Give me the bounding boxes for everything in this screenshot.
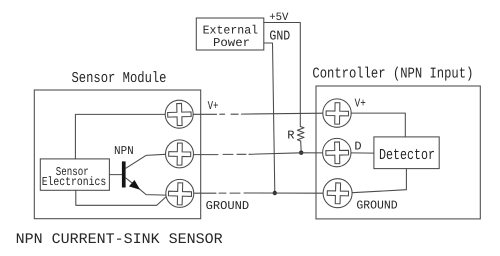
wire controller GROUND to detector bottom: [352, 169, 406, 193]
label External Power: [203, 24, 259, 50]
wire resistor to node: [300, 141, 303, 153]
svg-text:Power: Power: [213, 36, 250, 50]
svg-text:NPN: NPN: [114, 144, 134, 158]
label Sensor Electronics: [42, 165, 107, 189]
external power supply box: [196, 18, 263, 50]
wire V+ line sensor to controller: [193, 113, 323, 114]
svg-text:R: R: [287, 128, 294, 142]
svg-text:V+: V+: [355, 96, 366, 110]
sensor electronics box: [40, 159, 109, 190]
terminal sensor D: [166, 140, 194, 168]
wire controller V+ to detector top: [351, 113, 405, 137]
transistor Q1 NPN base bar: [122, 161, 126, 187]
controller box: [316, 86, 480, 219]
wire controller D to detector left: [351, 152, 374, 154]
transistor Q1 emitter arrow: [130, 181, 139, 189]
wire emitter to ground terminal: [126, 178, 166, 195]
wire D line sensor to controller: [193, 153, 322, 155]
sensor module box: [34, 90, 200, 219]
detector box: [374, 137, 439, 169]
svg-text:Sensor Module: Sensor Module: [72, 70, 167, 87]
svg-text:GROUND: GROUND: [206, 199, 250, 213]
terminal controller V+: [323, 99, 351, 127]
svg-text:Controller (NPN Input): Controller (NPN Input): [312, 65, 473, 82]
terminal controller D: [323, 138, 351, 166]
node junction dot resistor/D wire: [299, 151, 303, 155]
svg-text:V+: V+: [208, 99, 219, 113]
terminal sensor GROUND: [166, 179, 194, 207]
node junction dot GND/GROUND wire: [273, 191, 277, 195]
svg-text:GROUND: GROUND: [356, 199, 397, 213]
resistor R: [297, 127, 304, 141]
wire GND net: [264, 43, 275, 193]
svg-text:Detector: Detector: [379, 146, 435, 164]
wire sensor electronics to ground terminal: [76, 190, 166, 205]
svg-text:NPN CURRENT-SINK SENSOR: NPN CURRENT-SINK SENSOR: [16, 232, 223, 248]
svg-text:D: D: [354, 139, 361, 153]
terminal controller GROUND: [323, 179, 352, 208]
wire sensor V+ internal: [75, 114, 165, 158]
wire collector to D terminal: [126, 154, 166, 168]
wire GROUND line sensor to controller: [194, 192, 323, 194]
wire +5V net: [264, 23, 301, 127]
svg-text:Electronics: Electronics: [42, 175, 107, 189]
svg-text:GND: GND: [269, 30, 290, 45]
terminal sensor V+: [165, 100, 193, 128]
wire base of transistor: [109, 174, 122, 176]
